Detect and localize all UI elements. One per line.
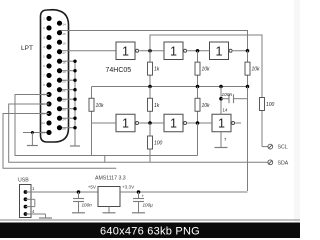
- svg-text:640x476 63kb PNG: 640x476 63kb PNG: [100, 226, 200, 238]
- svg-text:14: 14: [223, 108, 228, 113]
- svg-text:100: 100: [266, 102, 275, 108]
- svg-text:21: 21: [62, 89, 66, 93]
- svg-text:17: 17: [62, 51, 66, 55]
- svg-text:10k: 10k: [252, 67, 261, 73]
- svg-text:1: 1: [170, 44, 177, 58]
- svg-text:10k: 10k: [202, 103, 211, 109]
- svg-text:18: 18: [62, 60, 66, 64]
- svg-text:7: 7: [43, 74, 45, 78]
- svg-text:1: 1: [216, 44, 223, 58]
- svg-text:100n: 100n: [82, 203, 93, 208]
- svg-text:100µ: 100µ: [143, 203, 154, 208]
- svg-text:1: 1: [218, 117, 225, 131]
- svg-text:10k: 10k: [202, 67, 211, 73]
- svg-text:USB: USB: [18, 178, 29, 184]
- svg-text:+3.3V: +3.3V: [122, 185, 135, 190]
- svg-text:AMS1117 3.3: AMS1117 3.3: [95, 176, 126, 182]
- svg-text:LPT: LPT: [21, 45, 33, 52]
- svg-text:19: 19: [62, 70, 66, 74]
- svg-text:20: 20: [62, 79, 66, 83]
- svg-text:2: 2: [43, 26, 45, 30]
- svg-text:15: 15: [62, 32, 66, 36]
- svg-text:100n: 100n: [222, 92, 233, 98]
- svg-text:1: 1: [122, 44, 129, 58]
- svg-text:1: 1: [43, 17, 45, 21]
- svg-text:14: 14: [62, 22, 66, 26]
- svg-text:6: 6: [43, 64, 45, 68]
- svg-text:8: 8: [43, 83, 45, 87]
- svg-text:1: 1: [170, 117, 177, 131]
- svg-text:5: 5: [43, 55, 45, 59]
- svg-text:SCL: SCL: [278, 145, 288, 151]
- svg-text:+: +: [142, 194, 145, 199]
- svg-text:74HC05: 74HC05: [106, 67, 132, 74]
- svg-text:13: 13: [41, 131, 45, 135]
- svg-text:25: 25: [62, 127, 66, 131]
- svg-text:1k: 1k: [154, 103, 160, 109]
- svg-text:10k: 10k: [96, 103, 105, 109]
- svg-text:12: 12: [41, 121, 45, 125]
- svg-text:3: 3: [43, 36, 45, 40]
- svg-text:1: 1: [122, 117, 129, 131]
- svg-text:24: 24: [62, 117, 66, 121]
- svg-text:100: 100: [154, 141, 163, 147]
- svg-text:SDA: SDA: [278, 160, 289, 166]
- svg-text:16: 16: [62, 41, 66, 45]
- svg-text:23: 23: [62, 108, 66, 112]
- svg-text:1k: 1k: [154, 67, 160, 73]
- svg-text:+5V: +5V: [88, 185, 97, 190]
- svg-text:22: 22: [62, 98, 66, 102]
- svg-text:4: 4: [43, 45, 45, 49]
